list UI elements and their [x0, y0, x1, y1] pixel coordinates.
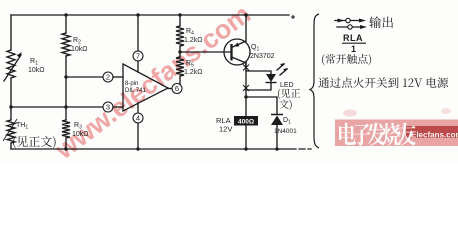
- svg-text:Elecfans.com: Elecfans.com: [411, 131, 458, 140]
- relay contact RLA/1 output symbol: [335, 20, 359, 22]
- svg-text:2N3702: 2N3702: [250, 53, 275, 60]
- svg-text:LED: LED: [280, 82, 294, 89]
- svg-text:1.2kΩ: 1.2kΩ: [184, 69, 202, 76]
- svg-text:D1: D1: [283, 117, 291, 126]
- svg-text:10kΩ: 10kΩ: [72, 131, 89, 138]
- wire top supply rail +12V: [11, 14, 289, 16]
- wire base drive: [180, 51, 231, 53]
- wire left column: [10, 15, 12, 149]
- resistor R5 1.2k: [176, 57, 184, 76]
- relay coil RLA 400ohm: [234, 116, 258, 126]
- resistor R1 preset 10k: [7, 50, 15, 78]
- wire collector column: [245, 62, 247, 116]
- wire pin 7 supply: [136, 13, 139, 16]
- node pin 6: [172, 84, 182, 94]
- label (see text): [13, 136, 56, 149]
- svg-text:R2: R2: [73, 37, 81, 46]
- node pin 4: [133, 113, 143, 123]
- transistor Q1 2N3702: [224, 39, 250, 65]
- svg-text:12V: 12V: [219, 125, 232, 134]
- wire bottom 0V rail: [11, 148, 296, 150]
- svg-text:R1: R1: [30, 58, 38, 67]
- wire inverting input to pin 2: [66, 76, 103, 78]
- svg-text:RLA: RLA: [343, 33, 363, 43]
- node junction R1/TH1 to pin3: [9, 105, 12, 108]
- red watermark logo box: [335, 120, 458, 147]
- svg-text:7: 7: [136, 52, 140, 61]
- svg-text:1: 1: [351, 44, 357, 54]
- diode D1 1N4001 flyback: [271, 114, 283, 116]
- svg-text:DIL 741: DIL 741: [125, 88, 146, 94]
- svg-text:TH1: TH1: [16, 122, 28, 131]
- thermistor TH1: [7, 120, 15, 143]
- svg-text:8-pin: 8-pin: [125, 81, 138, 87]
- wire R2/R3 column: [65, 15, 67, 149]
- resistor R3 10k: [62, 120, 70, 138]
- wire LED branch: [246, 71, 271, 90]
- svg-text:10kΩ: 10kΩ: [28, 67, 45, 74]
- svg-text:2: 2: [106, 73, 110, 82]
- connector mark x upper: [243, 65, 249, 71]
- svg-text:10kΩ: 10kΩ: [71, 46, 88, 53]
- LED D2 indicator: [266, 74, 276, 82]
- node pin 2: [103, 72, 113, 82]
- connector mark x lower: [243, 85, 249, 91]
- svg-text:6: 6: [175, 84, 179, 93]
- brace bracket for supply annotation: [310, 14, 319, 148]
- wire pin 4 to 0V: [137, 103, 139, 113]
- node collector junction: [244, 95, 247, 98]
- label normally open contact: [322, 54, 371, 65]
- label via ignition switch to 12V: [318, 77, 448, 88]
- resistor R4 1.2k: [176, 26, 184, 46]
- collector: [232, 57, 247, 66]
- node pin 3: [103, 102, 113, 112]
- svg-text:4: 4: [136, 114, 140, 123]
- svg-text:1.2kΩ: 1.2kΩ: [184, 37, 202, 44]
- label output: [369, 16, 393, 28]
- svg-text:400Ω: 400Ω: [238, 118, 254, 125]
- svg-text:Q1: Q1: [251, 44, 259, 53]
- LED emission arrows: [277, 64, 284, 70]
- svg-text:3: 3: [106, 103, 110, 112]
- node + supply end mark: [291, 15, 295, 19]
- emitter with PNP arrow: [232, 41, 247, 48]
- node pin 7: [133, 51, 143, 61]
- wire op-amp output: [168, 88, 172, 90]
- wire R4/R5 column: [178, 13, 181, 16]
- svg-text:1N4001: 1N4001: [274, 128, 297, 135]
- wire to D1: [246, 97, 277, 114]
- arrow of preset R1: [4, 55, 21, 81]
- resistor R2 10k: [62, 33, 70, 56]
- op-amp U1 741 triangle: [123, 64, 168, 111]
- wire non-inverting input to pin 3: [11, 106, 103, 108]
